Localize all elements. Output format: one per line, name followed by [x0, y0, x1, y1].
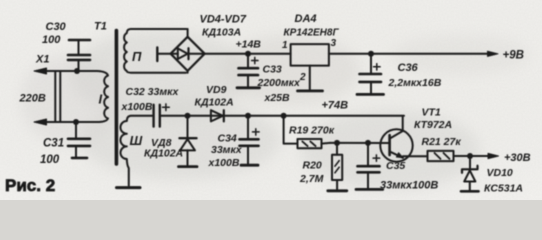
ground winding III: [117, 186, 141, 189]
transistor VT1: [380, 116, 412, 162]
svg-text:2: 2: [299, 72, 306, 83]
transformer T1 winding II: [124, 29, 186, 73]
regulator DA4 box: [291, 44, 329, 66]
resistor R19: [284, 116, 330, 148]
node R20 junction: [334, 140, 340, 146]
svg-text:1: 1: [282, 40, 288, 51]
node VD8 junction: [185, 113, 191, 119]
svg-text:КД102А: КД102А: [144, 147, 183, 159]
svg-text:R20: R20: [303, 159, 322, 171]
resistor R21: [428, 151, 489, 161]
svg-text:КД103А: КД103А: [202, 26, 241, 38]
node R19 drop junction: [281, 113, 287, 119]
node C33 junction: [245, 51, 251, 57]
bridge VD4-VD7 diamond: [171, 37, 205, 71]
svg-text:С32 33мкх: С32 33мкх: [126, 86, 180, 98]
wire +9V output: [329, 53, 489, 55]
capacitor C34: [240, 116, 260, 164]
ground VD10: [461, 190, 479, 193]
svg-text:Х1: Х1: [35, 54, 49, 66]
svg-text:С30: С30: [46, 21, 67, 33]
svg-text:С31: С31: [43, 137, 64, 149]
ground C36: [357, 93, 384, 96]
svg-text:П: П: [132, 49, 142, 64]
arrow +30V: [488, 153, 499, 158]
svg-text:х100В: х100В: [121, 101, 153, 113]
svg-text:I: I: [99, 92, 103, 107]
connector X1 lower wire: [40, 121, 99, 123]
svg-text:220В: 220В: [19, 93, 46, 105]
node VD10 junction: [467, 153, 473, 159]
svg-text:КР142ЕН8Г: КР142ЕН8Г: [284, 27, 340, 38]
node C36 junction: [368, 51, 374, 57]
arrow +9V: [488, 51, 499, 56]
svg-text:Т1: Т1: [94, 21, 107, 33]
wire +14V bus: [205, 53, 291, 55]
svg-text:х25В: х25В: [264, 92, 291, 104]
capacitor C33: [239, 54, 259, 87]
svg-text:2,2мкх16В: 2,2мкх16В: [388, 77, 442, 89]
transformer T1 winding III: [120, 116, 152, 186]
wire emitter line: [403, 155, 428, 157]
capacitor C36: [360, 54, 382, 93]
ground R20: [328, 189, 347, 192]
ground C33: [237, 86, 260, 89]
capacitor C31: [68, 122, 90, 158]
diode VD8: [180, 116, 197, 165]
svg-text:3: 3: [331, 38, 337, 49]
bridge VD4-VD7 top stub: [187, 29, 189, 37]
svg-text:Ш: Ш: [130, 133, 143, 148]
resistor R20: [332, 143, 342, 190]
svg-text:С36: С36: [398, 62, 419, 74]
svg-text:100: 100: [42, 34, 61, 46]
svg-text:С35: С35: [386, 160, 405, 172]
capacitor C30: [68, 40, 90, 71]
svg-text:КТ972А: КТ972А: [414, 119, 452, 131]
svg-text:2,7М: 2,7М: [299, 173, 324, 185]
capacitor C35: [358, 143, 380, 188]
ground C35: [356, 188, 383, 191]
bridge left terminal bar: [156, 48, 158, 62]
svg-text:Рис. 2: Рис. 2: [5, 176, 55, 195]
plug X1 double lines: [55, 71, 60, 122]
wire +74V rail: [161, 115, 404, 117]
svg-text:VD4-VD7: VD4-VD7: [200, 14, 247, 26]
capacitor C32: [154, 104, 170, 127]
svg-text:2200мкх: 2200мкх: [257, 77, 301, 89]
svg-text:КД102А: КД102А: [195, 97, 234, 109]
connector X1 lower arrow: [34, 119, 47, 125]
svg-text:33мкх100В: 33мкх100В: [380, 179, 438, 191]
transformer T1 winding I: [97, 71, 108, 122]
zener VD10: [462, 156, 478, 190]
svg-text:VD9: VD9: [206, 84, 227, 96]
svg-text:VD10: VD10: [487, 167, 513, 179]
svg-text:33мкх: 33мкх: [211, 144, 243, 156]
svg-text:R21 27к: R21 27к: [422, 136, 462, 148]
ground C34: [241, 164, 258, 167]
ground VD8: [179, 165, 198, 168]
regulator DA4 pin 2 lead: [309, 66, 311, 90]
transformer T1 core: [115, 31, 119, 165]
connector X1 upper arrow: [34, 68, 47, 74]
node C34 junction: [245, 113, 251, 119]
node C31 junction: [73, 119, 79, 125]
svg-text:100: 100: [40, 154, 60, 166]
diode VD9: [211, 110, 224, 121]
wire base line: [330, 142, 389, 144]
svg-text:R19 270к: R19 270к: [289, 124, 335, 136]
svg-text:х100В: х100В: [208, 157, 240, 169]
ground DA4: [298, 90, 323, 93]
svg-text:DА4: DА4: [295, 13, 317, 25]
node C30 junction: [74, 68, 80, 74]
node C35 junction: [365, 140, 371, 146]
bridge inner diode: [171, 48, 205, 59]
svg-text:+14В: +14В: [236, 39, 262, 51]
svg-text:+74В: +74В: [322, 100, 349, 112]
svg-text:С33: С33: [263, 63, 282, 75]
svg-text:+9В: +9В: [503, 49, 524, 61]
svg-text:VТ1: VТ1: [422, 106, 441, 118]
svg-text:КС531А: КС531А: [484, 182, 523, 194]
bridge VD4-VD7 bottom stub: [187, 71, 189, 73]
svg-text:+30В: +30В: [504, 152, 531, 164]
svg-text:С34: С34: [218, 133, 237, 145]
connector X1 upper wire: [40, 70, 97, 72]
